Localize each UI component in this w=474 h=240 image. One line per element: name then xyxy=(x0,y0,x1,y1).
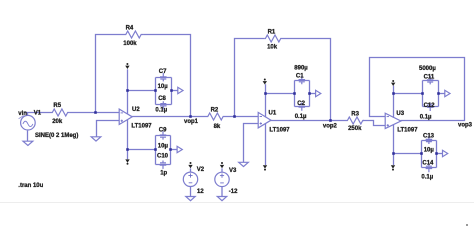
svg-text:0.1µ: 0.1µ xyxy=(295,114,307,120)
svg-text:C7: C7 xyxy=(159,69,167,75)
svg-text:10µ: 10µ xyxy=(158,84,169,90)
svg-text:U3: U3 xyxy=(396,111,404,117)
svg-text:U2: U2 xyxy=(132,107,140,113)
svg-text:890µ: 890µ xyxy=(294,65,308,71)
svg-text:100k: 100k xyxy=(123,41,137,47)
svg-text:SINE(0 2 1Meg): SINE(0 2 1Meg) xyxy=(35,133,78,139)
svg-text:vop3: vop3 xyxy=(458,122,473,128)
svg-text:C8: C8 xyxy=(158,96,166,102)
svg-text:LT1097: LT1097 xyxy=(131,123,152,129)
svg-text:8k: 8k xyxy=(214,124,221,130)
svg-text:10µ: 10µ xyxy=(158,144,169,150)
svg-text:R3: R3 xyxy=(351,111,359,117)
svg-text:vop2: vop2 xyxy=(323,123,338,129)
svg-text:C9: C9 xyxy=(159,127,167,133)
svg-text:10k: 10k xyxy=(267,45,278,51)
svg-text:vop1: vop1 xyxy=(184,119,199,125)
svg-text:C2: C2 xyxy=(297,101,305,107)
svg-text:20k: 20k xyxy=(52,119,63,125)
svg-text:0.1µ: 0.1µ xyxy=(420,115,432,121)
svg-text:C1: C1 xyxy=(296,73,304,79)
svg-text:12: 12 xyxy=(197,189,204,195)
svg-text:C13: C13 xyxy=(423,133,435,139)
svg-text:C11: C11 xyxy=(424,74,435,80)
svg-text:5000µ: 5000µ xyxy=(419,66,436,72)
svg-text:C10: C10 xyxy=(157,153,169,159)
svg-text:1p: 1p xyxy=(160,171,167,177)
svg-text:R5: R5 xyxy=(53,103,61,109)
svg-text:U1: U1 xyxy=(269,111,277,117)
svg-text:0.1µ: 0.1µ xyxy=(155,107,167,113)
svg-text:V1: V1 xyxy=(34,111,42,117)
svg-text:LT1097: LT1097 xyxy=(397,127,418,133)
svg-text:LT1097: LT1097 xyxy=(269,128,290,134)
svg-text:V3: V3 xyxy=(229,168,237,174)
svg-text:0.1µ: 0.1µ xyxy=(421,175,433,181)
svg-text:C12: C12 xyxy=(424,103,436,109)
svg-text:V2: V2 xyxy=(197,167,205,173)
svg-text:R1: R1 xyxy=(268,29,276,35)
svg-text:R4: R4 xyxy=(126,25,134,31)
svg-text:250k: 250k xyxy=(348,126,362,132)
svg-text:.tran 10u: .tran 10u xyxy=(18,183,43,189)
svg-text:R2: R2 xyxy=(211,108,219,114)
svg-text:C14: C14 xyxy=(422,161,434,167)
svg-text:10µ: 10µ xyxy=(424,148,435,154)
svg-text:-12: -12 xyxy=(229,189,238,195)
